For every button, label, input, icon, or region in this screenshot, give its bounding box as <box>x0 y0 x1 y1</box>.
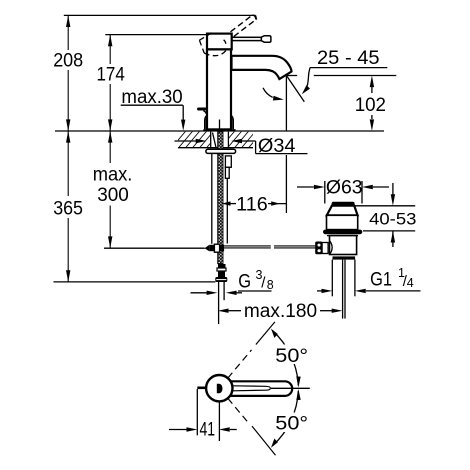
max.180 <box>218 309 229 313</box>
svg-text:50°: 50° <box>275 346 308 367</box>
knob collar <box>322 243 328 254</box>
svg-text:Ø34: Ø34 <box>258 136 296 157</box>
body <box>207 49 231 129</box>
svg-text:Ø63: Ø63 <box>326 178 363 199</box>
svg-text:174: 174 <box>97 65 126 86</box>
svg-text:8: 8 <box>267 278 274 292</box>
lever handle <box>232 37 263 40</box>
svg-text:4: 4 <box>407 276 414 290</box>
O63 dim <box>297 186 314 188</box>
dashed rotated head <box>199 33 226 56</box>
208 top extension line <box>64 14 256 16</box>
174 top extension line <box>105 34 206 36</box>
arcs <box>273 331 299 386</box>
locking nut <box>206 149 236 153</box>
counter slab hatched <box>168 126 274 152</box>
arc arrowheads <box>296 376 300 387</box>
102 dim <box>371 87 373 93</box>
svg-text:41: 41 <box>200 420 216 441</box>
lever <box>222 381 292 396</box>
flange <box>323 230 362 235</box>
rod tilted in hole <box>213 133 217 148</box>
swivel arc <box>263 88 273 98</box>
lower body <box>330 236 357 255</box>
svg-text:max.: max. <box>93 164 133 185</box>
rays <box>228 322 276 455</box>
dim line 208/365 <box>67 15 69 282</box>
svg-text:365: 365 <box>53 199 83 220</box>
svg-text:G1: G1 <box>370 270 392 291</box>
40-53 dim <box>355 205 415 207</box>
braided supply hose <box>218 132 223 264</box>
rod in base <box>219 120 221 131</box>
aerator axis <box>287 76 305 102</box>
svg-text:50°: 50° <box>275 413 308 434</box>
head <box>207 34 232 50</box>
faucet body <box>199 15 292 132</box>
41 dim <box>196 389 198 435</box>
spout <box>232 56 292 79</box>
G1 1/4 <box>317 290 322 292</box>
pop-up rod vertical <box>211 153 213 243</box>
G3/8 fitting <box>218 264 226 268</box>
spout vertical line <box>285 76 287 132</box>
dark band <box>333 256 356 259</box>
365 bottom extension line <box>54 281 216 283</box>
pop-up hook <box>199 107 207 110</box>
dashed raised lever <box>231 15 256 37</box>
left tick <box>197 386 206 389</box>
cone <box>327 206 358 216</box>
base plate <box>203 129 235 131</box>
svg-text:116: 116 <box>236 194 268 215</box>
svg-text:102: 102 <box>355 95 386 116</box>
svg-text:208: 208 <box>53 50 83 71</box>
svg-text:25 - 45: 25 - 45 <box>317 48 380 69</box>
horizontal pop-up rod <box>104 247 205 249</box>
svg-text:40-53: 40-53 <box>369 209 416 228</box>
svg-text:G: G <box>238 272 251 293</box>
circle body <box>206 375 232 401</box>
mounting hole edges <box>210 132 212 148</box>
plug cap <box>332 202 355 206</box>
dim line 174/max300 <box>109 35 111 248</box>
G3/8 <box>191 292 208 294</box>
svg-text:300: 300 <box>97 185 129 206</box>
svg-text:max.180: max.180 <box>244 301 317 322</box>
deck top line <box>55 130 384 132</box>
tailpipe <box>331 260 333 297</box>
